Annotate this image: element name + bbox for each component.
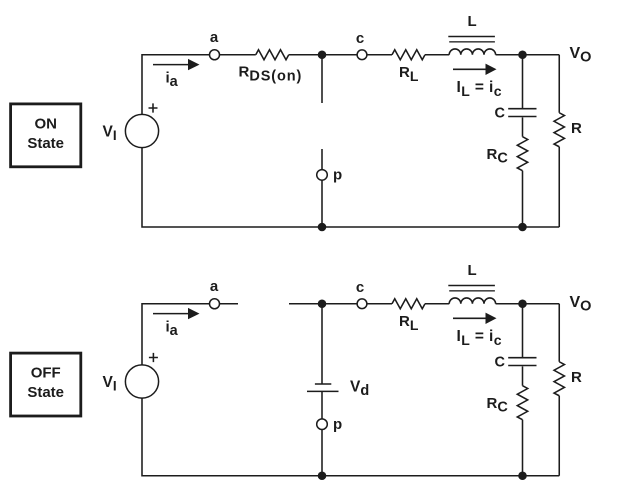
wire: battery to node p (OFF) xyxy=(321,391,323,419)
wire: node p to ground rail (OFF) xyxy=(321,430,323,476)
diode drop Vd battery plates (OFF) xyxy=(307,384,339,391)
wire: capacitor to RC (ON) xyxy=(522,117,524,136)
node p (ON) xyxy=(317,170,328,181)
wire: RC to ground rail (OFF) xyxy=(522,420,524,476)
svg-text:C: C xyxy=(495,355,506,371)
junction dot ground capacitor branch (ON) xyxy=(518,223,527,232)
diode branch upper wire (OFF) xyxy=(321,304,323,384)
svg-text:a: a xyxy=(210,278,219,295)
current arrow IL (ON) xyxy=(453,64,497,75)
current arrow IL (OFF) xyxy=(453,313,497,324)
voltage source VI (OFF) xyxy=(125,365,158,398)
wire: inductor to output corner (OFF) xyxy=(496,303,560,305)
wire: load R to ground rail (ON) xyxy=(558,147,560,227)
switch branch lower wire to node p (ON) xyxy=(321,149,323,170)
voltage source VI (ON) xyxy=(125,114,158,147)
wire: open gap to diode branch (OFF) xyxy=(289,303,357,305)
inductor L core lines (OFF) xyxy=(448,286,495,291)
wire: VI top riser to node a (ON) xyxy=(142,55,209,115)
wire: output node down to capacitor (ON) xyxy=(522,55,524,108)
capacitor C plates (OFF) xyxy=(508,358,536,366)
node c (OFF) xyxy=(357,299,367,309)
resistor RL (OFF) xyxy=(392,299,425,309)
node c (ON) xyxy=(357,50,367,60)
open switch stub wire after node a (OFF) xyxy=(220,303,238,305)
ON State label box xyxy=(11,104,81,167)
wire: RDS(on) to node c xyxy=(289,54,357,56)
resistor RC (ON) xyxy=(517,137,527,171)
svg-text:p: p xyxy=(333,167,342,184)
svg-text:IL = ic: IL = ic xyxy=(457,79,502,99)
wire: node c to RL (ON) xyxy=(367,54,392,56)
wire: inductor to output corner (ON) xyxy=(496,54,560,56)
svg-text:L: L xyxy=(468,13,477,30)
wire: output node down to capacitor (OFF) xyxy=(522,304,524,357)
inductor L core lines (ON) xyxy=(448,37,495,42)
wire: output corner down to load R (OFF) xyxy=(558,304,560,362)
inductor L coil (OFF) xyxy=(449,298,495,304)
capacitor C plates (ON) xyxy=(508,109,536,117)
resistor R load (OFF) xyxy=(554,362,564,396)
plus sign (ON) xyxy=(149,103,158,112)
wire: RL to inductor (OFF) xyxy=(425,303,449,305)
inductor L coil (ON) xyxy=(449,49,495,55)
junction dot ground switch branch (ON) xyxy=(318,223,327,232)
svg-text:c: c xyxy=(356,30,364,47)
svg-text:IL = ic: IL = ic xyxy=(457,328,502,348)
node a (OFF) xyxy=(210,299,220,309)
wire: VI top riser to node a (OFF) xyxy=(142,304,209,365)
junction dot ground diode branch (OFF) xyxy=(318,471,327,480)
current arrow ia (OFF) xyxy=(153,308,200,319)
plus sign (OFF) xyxy=(149,353,158,362)
junction dot at diode branch (OFF) xyxy=(318,299,327,308)
wire: RC to ground rail (ON) xyxy=(522,171,524,227)
ground rail wire (ON) xyxy=(142,148,559,227)
wire: node p to ground rail (ON) xyxy=(321,180,323,227)
svg-text:c: c xyxy=(356,279,364,296)
svg-text:a: a xyxy=(210,29,219,46)
resistor RL (ON) xyxy=(392,50,425,60)
switch branch upper wire (ON) xyxy=(321,55,323,103)
junction dot at output node (OFF) xyxy=(518,299,527,308)
wire: output corner down to load R (ON) xyxy=(558,55,560,113)
resistor RDS(on) xyxy=(256,50,289,60)
wire: node a to RDS(on) xyxy=(220,54,256,56)
svg-text:State: State xyxy=(27,135,64,152)
junction dot at switch pole (ON) xyxy=(318,50,327,59)
node a (ON) xyxy=(210,50,220,60)
svg-text:L: L xyxy=(468,262,477,279)
resistor RC (OFF) xyxy=(517,386,527,420)
wire: load R to ground rail (OFF) xyxy=(558,396,560,476)
resistor R load (ON) xyxy=(554,113,564,147)
svg-text:p: p xyxy=(333,416,342,433)
junction dot at output node (ON) xyxy=(518,50,527,59)
svg-text:R: R xyxy=(571,369,582,386)
svg-text:C: C xyxy=(495,106,506,122)
junction dot ground capacitor branch (OFF) xyxy=(518,471,527,480)
OFF State label box xyxy=(11,353,81,416)
svg-text:State: State xyxy=(27,384,64,401)
wire: node c to RL (OFF) xyxy=(367,303,392,305)
node p (OFF) xyxy=(317,419,328,430)
svg-text:ON: ON xyxy=(34,115,57,132)
wire: RL to inductor (ON) xyxy=(425,54,449,56)
current arrow ia (ON) xyxy=(153,59,200,70)
svg-text:R: R xyxy=(571,120,582,137)
ground rail wire (OFF) xyxy=(142,398,559,476)
wire: capacitor to RC (OFF) xyxy=(522,366,524,385)
svg-text:OFF: OFF xyxy=(31,364,61,381)
